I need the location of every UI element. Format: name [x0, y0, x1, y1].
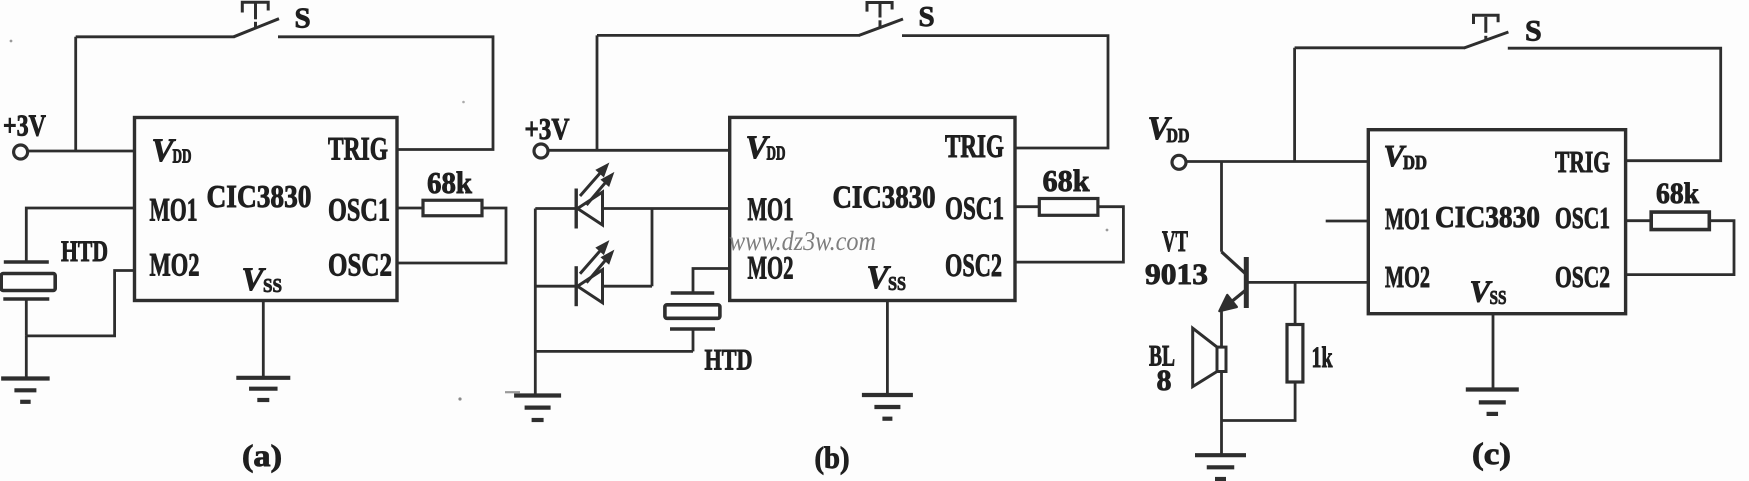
wire VSS to ground (a) — [262, 301, 265, 377]
svg-text:SS: SS — [263, 275, 282, 297]
svg-text:MO2: MO2 — [1385, 259, 1430, 294]
svg-text:OSC1: OSC1 — [1555, 200, 1610, 235]
wire 1k branch (c) — [1294, 282, 1297, 324]
svg-text:www.dz3w.com: www.dz3w.com — [729, 226, 876, 256]
svg-text:TRIG: TRIG — [945, 129, 1004, 165]
ground left (a) — [1, 379, 50, 402]
wire LED2 row right (b) — [603, 285, 653, 288]
wire OSC1 to resistor (b) — [1015, 205, 1039, 208]
svg-text:68k: 68k — [1043, 163, 1091, 198]
svg-text:MO2: MO2 — [150, 248, 200, 284]
wire resistor to OSC2 (a) — [397, 208, 506, 263]
resistor 68k (c) — [1651, 212, 1709, 230]
transistor VT 9013 emitter — [1228, 290, 1246, 304]
wire VSS to ground (c) — [1492, 314, 1495, 388]
wire HTD to bottom row (b) — [692, 329, 695, 351]
wire resistor to OSC2 (b) — [1015, 207, 1123, 262]
svg-text:DD: DD — [1403, 152, 1427, 174]
wire +3V to VDD (a) — [28, 150, 135, 153]
svg-text:TRIG: TRIG — [1555, 144, 1610, 179]
LED VD1 (b) — [576, 189, 602, 229]
ground VSS (b) — [862, 395, 913, 419]
svg-text:HTD: HTD — [61, 235, 108, 268]
wire bottom row to HTD (b) — [535, 350, 693, 353]
svg-text:+3V: +3V — [525, 111, 570, 146]
wire VSS to ground (b) — [886, 301, 889, 394]
wire top rail left (c) — [1295, 46, 1465, 49]
svg-text:68k: 68k — [1656, 177, 1699, 210]
wire MO1 row right (b) — [603, 207, 731, 210]
wire base to MO2 (c) — [1246, 281, 1369, 284]
wire 1k to junction (c) — [1222, 382, 1296, 421]
wire HTD bottom junction (a) — [25, 299, 28, 336]
speck artifact left of b ground — [505, 391, 520, 393]
svg-text:OSC1: OSC1 — [328, 193, 390, 229]
wire MO2 to HTD (b) — [693, 269, 730, 292]
svg-text:OSC1: OSC1 — [945, 191, 1004, 227]
svg-text:9013: 9013 — [1145, 258, 1208, 291]
svg-text:OSC2: OSC2 — [945, 248, 1002, 284]
speck artifact near trig a — [462, 101, 465, 104]
resistor 68k (b) — [1039, 199, 1098, 216]
ground VSS (a) — [236, 378, 290, 400]
wire top rail left (b) — [597, 34, 860, 37]
svg-text:S: S — [295, 2, 311, 34]
switch S (b) — [859, 3, 903, 36]
svg-text:S: S — [1525, 15, 1542, 48]
IC U3 CIC3830 (c) — [1368, 130, 1625, 314]
ground VSS (c) — [1466, 390, 1519, 414]
wire HTD to MO2 (a) — [26, 271, 135, 336]
wire left rail (b) — [534, 209, 537, 394]
svg-text:MO1: MO1 — [1385, 201, 1430, 236]
transistor VT 9013 collector diagonal — [1222, 252, 1246, 274]
svg-text:OSC2: OSC2 — [328, 248, 392, 284]
wire rail up to switch (b) — [596, 35, 599, 150]
svg-text:MO1: MO1 — [150, 193, 198, 229]
svg-text:CIC3830: CIC3830 — [207, 178, 312, 214]
wire OSC1 to resistor (c) — [1626, 219, 1652, 222]
svg-text:VT: VT — [1162, 225, 1188, 258]
wire LED2 row left (b) — [535, 285, 577, 288]
resistor 1k (c) — [1287, 325, 1303, 383]
svg-text:(a): (a) — [242, 438, 282, 473]
wire junction to ground (c) — [1220, 421, 1223, 454]
wire speaker to junction (c) — [1220, 372, 1223, 421]
wire MO1 row (b) — [535, 207, 577, 210]
svg-text:TRIG: TRIG — [328, 132, 388, 168]
piezo sounder HTD (b) — [665, 293, 720, 329]
svg-text:CIC3830: CIC3830 — [1435, 199, 1540, 234]
svg-text:SS: SS — [1490, 287, 1507, 309]
wire OSC1 to resistor (a) — [397, 207, 423, 210]
svg-text:HTD: HTD — [705, 344, 753, 377]
resistor 68k (a) — [423, 200, 482, 216]
wire MO1 to HTD (a) — [26, 208, 135, 261]
ground emitter (c) — [1195, 455, 1246, 479]
terminal +3V (b) — [534, 144, 548, 158]
wire rail up to switch (a) — [74, 37, 77, 151]
speck artifact below a — [458, 397, 461, 400]
speaker BL coil — [1217, 347, 1226, 371]
IC U2 CIC3830 (b) — [730, 117, 1015, 300]
svg-text:DD: DD — [173, 146, 192, 168]
svg-text:(c): (c) — [1472, 436, 1511, 471]
wire collector from VDD (c) — [1220, 162, 1223, 252]
svg-text:(b): (b) — [815, 440, 850, 475]
speck artifact top left — [10, 40, 13, 43]
speaker BL cone — [1193, 328, 1217, 386]
svg-text:SS: SS — [888, 273, 906, 295]
svg-text:8: 8 — [1157, 364, 1172, 397]
wire +3V to VDD (b) — [548, 149, 730, 152]
svg-text:1k: 1k — [1312, 341, 1333, 374]
wire junction to ground (a) — [25, 336, 28, 377]
wire rail up to switch (c) — [1293, 48, 1296, 162]
wire top rail left (a) — [76, 35, 235, 38]
svg-text:MO1: MO1 — [748, 192, 794, 228]
wire switch to TRIG (b) — [902, 36, 1108, 148]
wire MO1 stub (c) — [1326, 220, 1369, 223]
piezo sounder HTD (a) — [1, 262, 55, 299]
speck artifact b right — [1106, 229, 1109, 232]
IC U1 CIC3830 (a) — [135, 118, 398, 301]
ground left (b) — [514, 396, 561, 421]
wire switch to TRIG (c) — [1508, 48, 1721, 161]
terminal VDD (c) — [1172, 155, 1186, 169]
transistor VT 9013 base bar — [1244, 257, 1249, 308]
svg-text:+3V: +3V — [3, 108, 46, 143]
svg-text:DD: DD — [1167, 125, 1190, 147]
wire VDD to IC (c) — [1186, 160, 1369, 163]
wire emitter to speaker (c) — [1220, 309, 1223, 347]
LED VD2 (b) — [576, 266, 602, 306]
wire resistor to OSC2 (c) — [1626, 221, 1734, 275]
svg-text:CIC3830: CIC3830 — [833, 179, 936, 215]
switch S (c) — [1464, 15, 1508, 48]
wire LED2 branch vertical (b) — [651, 209, 654, 287]
terminal +3V (a) — [14, 145, 28, 159]
svg-text:OSC2: OSC2 — [1555, 259, 1610, 294]
svg-text:S: S — [919, 1, 935, 33]
wire switch to TRIG (a) — [278, 37, 493, 150]
switch S (a) — [234, 2, 279, 37]
svg-text:68k: 68k — [427, 165, 473, 200]
svg-text:DD: DD — [767, 143, 786, 165]
